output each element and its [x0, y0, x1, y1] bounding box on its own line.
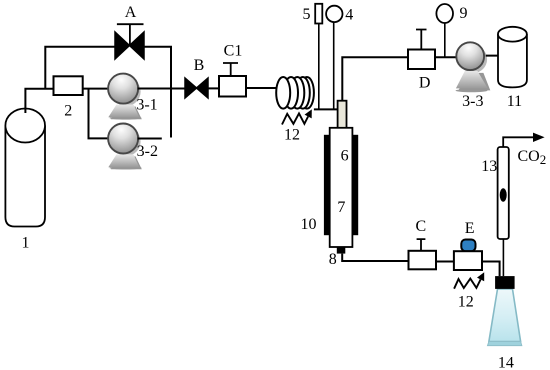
filter 2 — [54, 76, 83, 95]
CO2 outlet arrow — [503, 133, 544, 147]
heating coil — [276, 77, 314, 109]
wire bypass riser — [45, 47, 115, 89]
wire pump 3-1 outlet — [138, 88, 185, 90]
wire pump 3-3 to cylinder 11 — [486, 55, 505, 57]
wire tank to filter 2 — [25, 89, 53, 113]
valve A — [115, 24, 144, 59]
svg-text:CO2: CO2 — [518, 148, 547, 167]
wire pump 3-2 outlet — [138, 138, 162, 140]
wire valve B to C1 — [208, 87, 219, 89]
thermocouple 5 line — [318, 24, 320, 110]
svg-text:14: 14 — [498, 355, 514, 370]
pump 3-3 — [456, 42, 491, 92]
svg-text:7: 7 — [337, 199, 345, 216]
svg-text:5: 5 — [303, 6, 311, 23]
heater symbol 12 right — [454, 272, 484, 289]
svg-text:8: 8 — [329, 251, 337, 268]
svg-text:C1: C1 — [224, 43, 243, 60]
cylinder 11 — [498, 27, 527, 88]
cylinder tank 1 — [5, 109, 45, 227]
valve C — [409, 239, 437, 269]
valve B — [185, 78, 208, 98]
valve D — [408, 30, 435, 70]
wire valve D to pump 3-3 — [435, 56, 457, 58]
heating jacket right bar — [352, 135, 359, 235]
svg-text:A: A — [125, 4, 137, 21]
svg-text:6: 6 — [341, 148, 349, 165]
svg-text:3-3: 3-3 — [462, 93, 483, 110]
reactor top fitting — [338, 101, 347, 142]
svg-text:1: 1 — [22, 235, 30, 252]
pressure gauge 4 — [326, 6, 342, 22]
pressure gauge 9 — [436, 4, 453, 23]
wire branch to pump 3-2 — [89, 89, 109, 139]
svg-text:11: 11 — [507, 93, 522, 110]
heating jacket left bar — [324, 135, 331, 235]
pump 3-1 — [108, 74, 142, 120]
svg-text:3-1: 3-1 — [136, 97, 157, 114]
svg-text:E: E — [465, 220, 475, 237]
wire filter to pump 3-1 — [83, 88, 109, 90]
svg-text:10: 10 — [301, 216, 317, 233]
svg-text:13: 13 — [481, 158, 497, 175]
flow meter 13 — [498, 147, 509, 239]
wire C1 to coil — [246, 87, 276, 89]
svg-text:D: D — [419, 75, 431, 92]
flask stopper — [495, 276, 514, 289]
reactor body 7 — [330, 128, 353, 247]
wire flow meter to flask — [502, 239, 504, 276]
pump 3-2 — [108, 124, 142, 170]
wire reactor top to valve D — [342, 57, 408, 100]
wire E to flask — [482, 262, 500, 277]
heater symbol 12 left — [282, 109, 312, 124]
svg-text:12: 12 — [458, 293, 474, 310]
reactor bottom fitting 8 — [337, 247, 346, 254]
wire valve C to E — [436, 261, 454, 263]
gauge 9 line — [444, 22, 446, 57]
thermocouple 5 — [315, 4, 322, 24]
flask 14 — [488, 289, 522, 346]
svg-text:C: C — [415, 218, 426, 235]
svg-text:12: 12 — [284, 127, 300, 144]
svg-text:4: 4 — [345, 7, 353, 24]
svg-text:9: 9 — [460, 5, 468, 22]
wire coil to reactor inlet — [314, 108, 338, 110]
wire reactor outlet to valve C — [342, 254, 408, 261]
svg-text:2: 2 — [64, 103, 72, 120]
svg-text:B: B — [194, 57, 205, 74]
flow cell E — [454, 240, 482, 271]
back-pressure regulator C1 — [219, 63, 246, 97]
wire valve A to junction — [144, 47, 171, 138]
svg-text:3-2: 3-2 — [137, 143, 158, 160]
gauge 4 line — [333, 22, 335, 109]
